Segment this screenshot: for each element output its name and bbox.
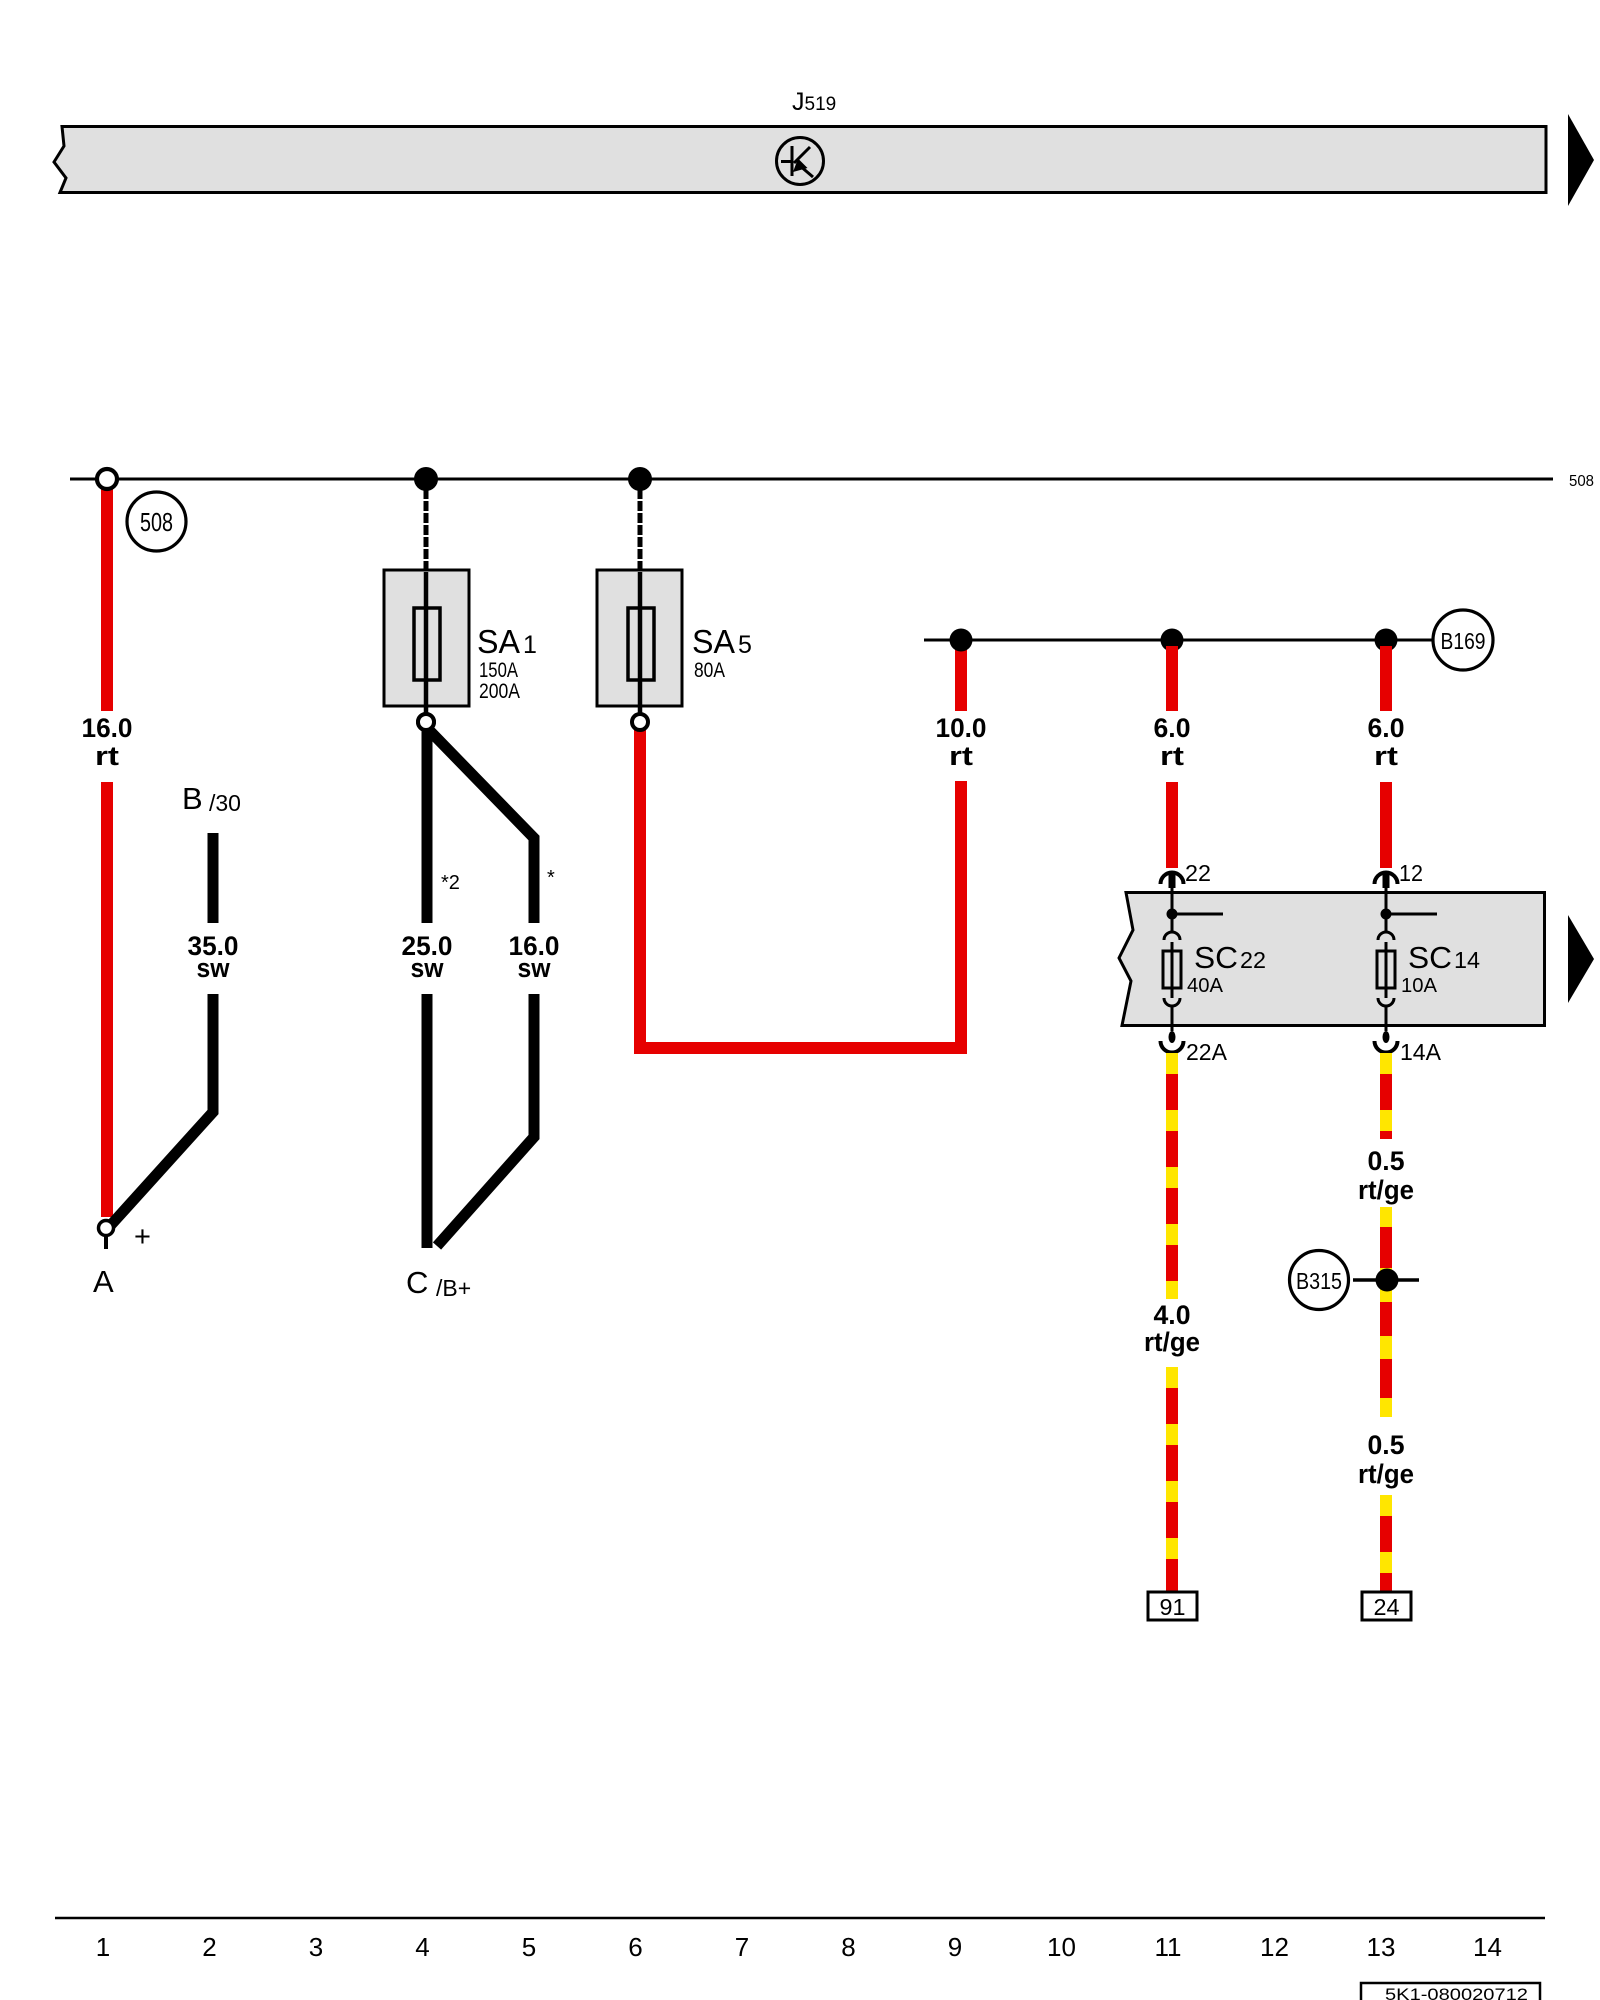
svg-text:8: 8 [841, 1932, 855, 1962]
svg-text:11: 11 [1155, 1932, 1182, 1962]
svg-text:7: 7 [735, 1932, 749, 1962]
terminal box 24 [1362, 1592, 1411, 1620]
svg-text:+: + [134, 1221, 151, 1253]
terminal A ring [99, 1221, 114, 1236]
junction dot SA5 feed [628, 467, 652, 491]
fuse SC14 [1377, 892, 1395, 1031]
svg-text:22: 22 [1185, 860, 1211, 886]
wire 0.5 rt/ge bottom segment [1380, 1495, 1392, 1592]
ground node B315 [1290, 1251, 1420, 1310]
svg-text:rt: rt [949, 741, 973, 771]
wire 16.0 rt lower segment [101, 782, 113, 1217]
svg-text:508: 508 [1569, 473, 1594, 490]
wire 6.0 rt lower (SC14 branch) [1380, 782, 1392, 868]
svg-text:6: 6 [628, 1932, 642, 1962]
terminal ring below SA5 [632, 714, 648, 730]
svg-text:22: 22 [1240, 947, 1266, 973]
svg-text:1: 1 [96, 1932, 110, 1962]
fuse SC22 [1163, 892, 1181, 1031]
terminal ring at 508 bus [97, 469, 117, 489]
svg-text:rt: rt [1160, 741, 1184, 771]
svg-text:rt/ge: rt/ge [1144, 1327, 1200, 1357]
junction dot bus-SA5 [950, 629, 973, 652]
svg-text:sw: sw [197, 953, 231, 983]
svg-text:24: 24 [1374, 1594, 1400, 1620]
svg-text:5K1-080020712: 5K1-080020712 [1385, 1985, 1528, 2000]
wire 0.5 rt/ge middle segment [1380, 1207, 1392, 1417]
svg-text:6.0: 6.0 [1368, 713, 1405, 743]
connector pin 14A [1375, 1031, 1398, 1053]
connector pin 22A [1161, 1031, 1184, 1053]
column scale numbers [96, 1932, 1502, 1962]
svg-text:150A: 150A [479, 659, 518, 682]
wire 4.0 rt/ge lower segment [1166, 1367, 1178, 1592]
svg-text:13: 13 [1367, 1932, 1396, 1962]
svg-text:B169: B169 [1441, 628, 1486, 654]
connector pin 12 [1375, 873, 1398, 893]
svg-text:4: 4 [415, 1932, 429, 1962]
junction dot SC22 tap [1167, 909, 1178, 920]
control unit internal-connection symbol K [777, 138, 824, 185]
svg-text:B: B [182, 781, 203, 816]
svg-text:rt: rt [1374, 741, 1398, 771]
svg-text:6.0: 6.0 [1154, 713, 1191, 743]
wire 6.0 rt upper (SC22 branch) [1166, 646, 1178, 711]
wire 6.0 rt upper (SC14 branch) [1380, 646, 1392, 711]
svg-text:508: 508 [140, 507, 173, 537]
svg-text:1: 1 [523, 631, 537, 659]
svg-text:0.5: 0.5 [1368, 1430, 1405, 1460]
wire B169 bus [924, 639, 1433, 642]
svg-text:200A: 200A [479, 680, 520, 703]
svg-text:rt: rt [95, 741, 119, 771]
svg-text:*2: *2 [441, 872, 460, 894]
svg-text:SA: SA [692, 623, 735, 660]
svg-text:91: 91 [1160, 1594, 1186, 1620]
svg-text:0.5: 0.5 [1368, 1146, 1405, 1176]
wire 6.0 rt lower (SC22 branch) [1166, 782, 1178, 868]
part number box 5K1-080020712 [1361, 1983, 1540, 2000]
arrow continuation right of J519 bar [1568, 114, 1594, 206]
svg-text:5: 5 [738, 631, 752, 659]
wire 4.0 rt/ge upper segment [1166, 1053, 1178, 1299]
svg-text:12: 12 [1260, 1932, 1289, 1962]
svg-text:B315: B315 [1296, 1268, 1342, 1294]
svg-text:/30: /30 [209, 790, 241, 816]
wire 16.0 sw diagonal + upper segment [429, 730, 534, 923]
svg-text:80A: 80A [694, 659, 725, 682]
junction dot bus-SC22 [1161, 629, 1184, 652]
svg-text:16.0: 16.0 [82, 713, 133, 743]
terminal box 91 [1148, 1592, 1197, 1620]
svg-text:rt/ge: rt/ge [1358, 1175, 1414, 1205]
wire 25.0 sw upper segment [422, 729, 433, 923]
svg-text:40A: 40A [1187, 975, 1224, 997]
junction dot bus-SC14 [1375, 629, 1398, 652]
svg-text:10A: 10A [1401, 975, 1438, 997]
wire 0.5 rt/ge top segment [1380, 1053, 1392, 1139]
control unit J519 bar [54, 127, 1546, 193]
fuse panel box SC [1119, 893, 1545, 1026]
svg-text:14A: 14A [1400, 1039, 1442, 1065]
fuse SA5 [597, 489, 682, 714]
node circle 508 [127, 492, 186, 551]
junction dot SC14 tap [1381, 909, 1392, 920]
wire 508 bus [70, 478, 1553, 481]
wire 16.0 sw lower segment with diagonal to C [437, 994, 534, 1246]
node circle B169 [1433, 610, 1493, 670]
wire 10.0 rt from SA5 down and to B169 bus [640, 729, 961, 1048]
wire 25.0 sw lower segment [422, 994, 433, 1248]
svg-text:14: 14 [1473, 1932, 1502, 1962]
wire 35.0 sw upper segment [208, 833, 219, 923]
svg-text:sw: sw [518, 953, 552, 983]
wire 16.0 rt upper segment [101, 488, 113, 711]
wire SC22 tap [1172, 913, 1223, 916]
svg-text:*: * [547, 867, 555, 889]
connector pin 22 [1161, 873, 1184, 893]
svg-text:SC: SC [1408, 940, 1452, 975]
svg-text:rt/ge: rt/ge [1358, 1459, 1414, 1489]
svg-text:sw: sw [411, 953, 445, 983]
svg-text:4.0: 4.0 [1154, 1300, 1191, 1330]
svg-text:10.0: 10.0 [936, 713, 987, 743]
svg-text:5: 5 [522, 1932, 536, 1962]
wire 35.0 sw lower segment with diagonal to A [110, 994, 213, 1226]
svg-text:10: 10 [1047, 1932, 1076, 1962]
terminal ring below SA1 [418, 714, 434, 730]
svg-text:A: A [93, 1264, 114, 1299]
svg-text:22A: 22A [1186, 1039, 1228, 1065]
bottom scale line [55, 1917, 1545, 1920]
svg-text:2: 2 [202, 1932, 216, 1962]
svg-text:SC: SC [1194, 940, 1238, 975]
svg-text:14: 14 [1454, 947, 1480, 973]
junction dot SA1 feed [414, 467, 438, 491]
wire SC14 tap [1386, 913, 1437, 916]
svg-text:SA: SA [477, 623, 520, 660]
svg-text:9: 9 [948, 1932, 962, 1962]
fuse SA1 [384, 489, 469, 730]
svg-text:C: C [406, 1265, 428, 1300]
svg-text:12: 12 [1399, 860, 1423, 886]
svg-text:/B+: /B+ [436, 1275, 471, 1301]
arrow continuation right of SC box [1568, 915, 1594, 1003]
svg-text:3: 3 [309, 1932, 323, 1962]
